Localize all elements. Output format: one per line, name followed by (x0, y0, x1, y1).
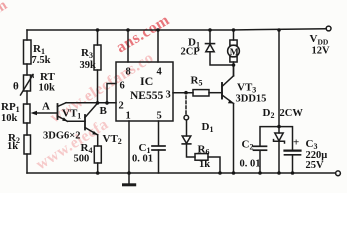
wire (26, 64, 28, 75)
pin6 bracket wire (107, 84, 116, 103)
svg-text:10k: 10k (1, 113, 18, 124)
svg-text:3: 3 (166, 90, 171, 101)
wire (26, 123, 28, 135)
resistor R6 (195, 154, 208, 161)
svg-text:8: 8 (126, 67, 131, 78)
svg-text:B: B (100, 105, 108, 117)
terminal VDD (326, 26, 331, 31)
svg-text:4: 4 (157, 67, 163, 78)
svg-text:0. 01: 0. 01 (132, 154, 153, 165)
terminal node (184, 115, 189, 120)
capacitor C2 (254, 145, 267, 147)
op-amp U1 IC NE555 box (116, 62, 173, 121)
wire VT3 collector (233, 65, 235, 76)
resistor R4 (94, 146, 101, 163)
top rail VDD (27, 29, 326, 30)
wire VDD branch right (278, 30, 280, 133)
svg-text:10k: 10k (39, 83, 56, 94)
svg-text:0. 01: 0. 01 (240, 159, 261, 170)
motor M (233, 30, 235, 40)
zener diode D2 2CW (275, 133, 283, 141)
terminal ground right (336, 171, 341, 176)
svg-text:+: + (293, 137, 299, 149)
wire pin 4 (157, 30, 159, 62)
svg-text:5: 5 (157, 111, 162, 122)
svg-text:12V: 12V (312, 46, 331, 57)
thermistor RT (24, 75, 31, 91)
svg-text:A: A (42, 101, 50, 113)
svg-text:3DD15: 3DD15 (236, 94, 267, 105)
svg-text:500: 500 (74, 154, 90, 165)
diode D1 lower (182, 136, 191, 143)
svg-text:2CW: 2CW (280, 108, 304, 119)
wire VT2 emitter to R4 (97, 135, 99, 146)
wire (26, 91, 28, 104)
bottom rail ground (27, 172, 336, 174)
capacitor C1 (152, 145, 165, 147)
wire (186, 120, 188, 136)
wire (209, 92, 222, 94)
wire left column top (26, 30, 28, 40)
potentiometer RP1 (24, 104, 31, 123)
capacitor C3 electrolytic (285, 150, 301, 152)
transistor VT3 (221, 83, 223, 99)
ground (128, 173, 130, 184)
wire (97, 163, 99, 173)
svg-text:25V: 25V (306, 160, 325, 171)
transistor VT1 (57, 104, 59, 119)
wire VT3 emitter (233, 104, 235, 174)
svg-text:2CP: 2CP (181, 47, 201, 58)
diode D1 flyback 2CP (209, 30, 211, 43)
svg-text:2: 2 (119, 101, 124, 112)
wire pin 5 (158, 121, 160, 146)
resistor R3 (97, 30, 99, 45)
svg-text:3DG6×2: 3DG6×2 (43, 131, 80, 142)
wire pin 1 (128, 121, 130, 173)
svg-text:1k: 1k (7, 141, 18, 152)
svg-text:7.5k: 7.5k (32, 55, 51, 66)
resistor R2 (24, 135, 31, 154)
wire node A to RP1 wiper (34, 112, 58, 114)
resistor R5 (193, 90, 209, 96)
wire (26, 154, 28, 173)
resistor R1 (24, 40, 32, 64)
wire pin 3 output (173, 92, 193, 94)
wire VT1 collector to node B (66, 102, 116, 104)
transistor VT2 (84, 115, 86, 130)
svg-text:M: M (230, 48, 239, 58)
dashed wire (185, 96, 187, 115)
svg-text:1k: 1k (199, 159, 210, 170)
svg-text:1: 1 (126, 111, 131, 122)
svg-text:6: 6 (120, 81, 125, 92)
wire C2 C3 top link (260, 127, 293, 151)
svg-text:IC: IC (140, 74, 153, 88)
wire VT1 emitter to VT2 base (68, 120, 86, 122)
wire pin 8 (127, 30, 129, 62)
svg-text:NE555: NE555 (130, 90, 163, 102)
svg-text:39k: 39k (80, 60, 97, 71)
svg-text:RT: RT (40, 71, 56, 83)
svg-text:θ: θ (13, 81, 19, 93)
wire (208, 157, 220, 173)
